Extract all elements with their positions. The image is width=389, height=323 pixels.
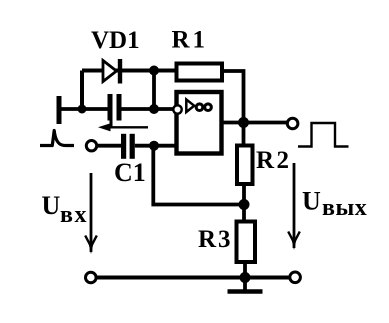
node divider junction xyxy=(239,199,250,210)
wire top horizontal (diode/R1 net) xyxy=(82,69,176,73)
op-amp U1 box xyxy=(177,92,222,154)
output pulse waveform xyxy=(298,123,349,147)
wire input to C1 xyxy=(97,144,121,148)
ground xyxy=(228,278,263,292)
arrow discharge direction xyxy=(98,120,148,132)
terminal bar left end xyxy=(57,96,62,124)
svg-text:вых: вых xyxy=(322,195,367,221)
svg-text:U: U xyxy=(42,191,61,220)
capacitor C plates xyxy=(108,94,122,121)
wire inverting input row xyxy=(59,107,174,111)
wire down from noninverting node xyxy=(153,146,244,205)
node bottom junction xyxy=(240,272,251,283)
op-amp gain symbol xyxy=(186,100,211,113)
bottom left terminal xyxy=(86,272,97,283)
node anode tap xyxy=(78,105,87,114)
wire R1 right to output column xyxy=(222,71,244,123)
wire junction down to inverting input xyxy=(152,71,156,110)
resistor R1 xyxy=(177,64,223,81)
wire output column to R2 xyxy=(242,123,246,147)
svg-text:вх: вх xyxy=(60,202,88,228)
op-amp inverting input circle xyxy=(173,105,181,113)
node output junction xyxy=(238,117,249,128)
svg-text:R3: R3 xyxy=(198,226,233,253)
diode VD1 xyxy=(103,59,122,84)
svg-text:C1: C1 xyxy=(114,158,146,187)
input pulse waveform xyxy=(40,131,74,146)
wire op-amp output xyxy=(222,121,288,125)
wire divider node to R3 xyxy=(242,205,246,223)
wire left drop from diode anode xyxy=(80,71,84,110)
output terminal xyxy=(287,118,298,129)
node diode-R1 junction xyxy=(149,66,159,76)
node inverting input junction xyxy=(149,104,159,114)
wire R2 to divider node xyxy=(242,184,246,205)
resistor R3 xyxy=(237,222,256,263)
svg-text:U: U xyxy=(302,187,321,216)
svg-text:VD1: VD1 xyxy=(91,27,140,54)
node noninverting junction xyxy=(149,141,159,151)
wire C1 to noninverting input xyxy=(135,144,176,148)
resistor R2 xyxy=(237,146,253,185)
svg-text:R2: R2 xyxy=(256,147,292,174)
wire R3 to bottom rail xyxy=(243,262,247,278)
capacitor C1 plates xyxy=(121,134,135,159)
bottom right terminal xyxy=(290,272,301,283)
svg-text:R1: R1 xyxy=(172,27,209,54)
wire bottom rail xyxy=(97,276,291,280)
arrow Uout xyxy=(288,163,300,250)
arrow Uin xyxy=(85,173,97,254)
input terminal xyxy=(86,141,96,151)
